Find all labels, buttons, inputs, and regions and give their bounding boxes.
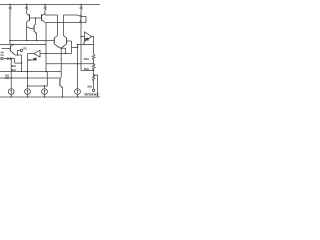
node Q7 emitter rail xyxy=(62,96,63,97)
node rail-R4 xyxy=(80,4,81,5)
wire R6 bottom to Q6 collector xyxy=(81,70,94,72)
op-amp A2 buffer x1 xyxy=(85,32,92,42)
svg-text:REFERENCE: REFERENCE xyxy=(84,93,99,97)
wire Q4 base bus xyxy=(10,40,54,42)
svg-text:5kΩ: 5kΩ xyxy=(11,69,15,72)
node sense y47.5 xyxy=(77,47,78,48)
node rail-R3 xyxy=(44,4,45,5)
wire bias bus y78 xyxy=(0,77,60,79)
terminal RG pin xyxy=(20,49,22,51)
wire RG leg down xyxy=(21,55,23,72)
current source I1 xyxy=(8,89,14,97)
wire mirror base xyxy=(30,17,42,19)
wire mirror base to Q3 xyxy=(35,18,37,24)
node mirror base junction xyxy=(35,17,36,18)
svg-text:5kΩ: 5kΩ xyxy=(84,57,90,61)
wire Q6 collector down xyxy=(80,20,82,70)
transistor Q6 (top right) xyxy=(77,14,86,23)
resistor R6 xyxy=(92,64,95,71)
resistor R4 xyxy=(80,5,82,15)
wire tail down to Q7 xyxy=(60,48,61,79)
wire A2 input xyxy=(81,36,85,38)
transistor Q3 (below Q1) xyxy=(27,24,37,40)
node A2 input xyxy=(80,36,81,37)
terminal reference pin xyxy=(92,89,94,91)
node R1-base bus xyxy=(9,40,10,41)
wire Q2 collector to A1 input rail xyxy=(45,23,47,72)
wire CS1 leg xyxy=(10,59,12,89)
wire A2 output xyxy=(92,37,94,54)
node I3 rail xyxy=(44,96,45,97)
node A2 feedback tap xyxy=(83,44,84,45)
node sense y63.8 xyxy=(77,63,78,64)
node I2 rail xyxy=(27,96,28,97)
svg-text:PUT: PUT xyxy=(0,55,5,57)
wire CS3 top y86 xyxy=(28,72,48,87)
wire A1 output xyxy=(28,53,35,55)
wire tail branch right xyxy=(61,48,66,53)
svg-text:5kΩ: 5kΩ xyxy=(11,65,15,68)
node output branch xyxy=(93,74,94,75)
resistor R3 xyxy=(44,5,46,16)
node y71.5 A1 in leg xyxy=(45,71,46,72)
node y86 CS3 xyxy=(44,85,45,86)
transistor Q2 mirror right xyxy=(42,14,47,23)
wire y47.5 to CS4 line xyxy=(72,47,78,49)
node y63.1 xyxy=(21,62,22,63)
wire A2 feedback xyxy=(78,44,94,46)
transistor Q1 mirror left xyxy=(27,14,30,23)
svg-text:x1: x1 xyxy=(85,37,89,41)
current source I2 xyxy=(25,89,31,97)
wire top supply rail xyxy=(0,4,100,6)
wire A1 output down xyxy=(27,54,29,89)
wire diff collector left xyxy=(54,15,57,38)
transistor Q1 input left xyxy=(2,45,16,56)
resistor R5 xyxy=(92,54,95,64)
wire Q5 base loop xyxy=(71,41,73,54)
diode input xyxy=(7,57,10,60)
transistor Q5 diff pair right xyxy=(61,38,72,49)
resistor R1 xyxy=(9,5,11,45)
node feedback to sense line xyxy=(77,44,78,45)
wire RG pin left xyxy=(18,50,21,55)
wire diff collector right xyxy=(64,15,67,38)
node Q3 emitter to bus xyxy=(36,40,37,41)
node y86 A1 leg xyxy=(27,85,28,86)
svg-text:RG: RG xyxy=(23,47,27,50)
node y71.5 RG leg xyxy=(21,71,22,72)
node A1 input junction xyxy=(45,53,46,54)
wire feedback bus y44.5 xyxy=(0,44,46,46)
node input junction xyxy=(10,58,11,59)
node Q3 collector to bus xyxy=(26,40,27,41)
node I1 rail xyxy=(10,96,11,97)
wire Q1 collector run to bus xyxy=(26,22,28,40)
current source I3 xyxy=(42,86,48,97)
wire A1 input xyxy=(40,53,72,55)
current source I4 xyxy=(75,89,81,97)
wire emitter feed right y15 xyxy=(64,14,78,16)
node I4 rail xyxy=(77,96,78,97)
node rail-R2 xyxy=(26,4,27,5)
wire input to corner xyxy=(10,59,15,64)
wire cascode bus y22.5 xyxy=(46,22,86,24)
wire emitter feed left y15 xyxy=(45,14,58,16)
svg-text:5kΩ: 5kΩ xyxy=(28,58,33,62)
node R6 bottom xyxy=(93,70,94,71)
wire bottom supply rail xyxy=(0,96,100,98)
resistor R2 xyxy=(25,5,27,14)
op-amp A1 buffer x1 xyxy=(33,50,40,61)
resistor R7 xyxy=(92,75,95,89)
node Q1c on y44.5 xyxy=(12,44,13,45)
svg-text:1kΩ: 1kΩ xyxy=(5,75,10,77)
wire output branch right/down xyxy=(94,75,98,97)
svg-text:-IN: -IN xyxy=(0,51,3,55)
node bias at CS1 line xyxy=(10,77,11,78)
svg-text:x1: x1 xyxy=(33,57,37,61)
node y63.8 at resistor chain xyxy=(93,63,94,64)
transistor Q4 diff pair left xyxy=(54,38,61,49)
terminal input pin xyxy=(1,57,3,59)
wire chain to output branch xyxy=(93,71,95,76)
node diff tail xyxy=(60,47,61,48)
wire y63.1 xyxy=(15,62,22,64)
wire network bus y71.5 xyxy=(0,71,61,73)
svg-text:5kΩ: 5kΩ xyxy=(87,85,92,88)
node y71.5 A1 out leg xyxy=(27,71,28,72)
wire sense line down xyxy=(77,45,79,89)
wire mid horizontal y63.8 xyxy=(46,63,94,65)
svg-text:1kΩ: 1kΩ xyxy=(5,78,10,80)
transistor Q7 tail source xyxy=(60,79,63,97)
node RG wire join xyxy=(17,54,18,55)
node tail branch on A1 wire xyxy=(65,53,66,54)
wire emitter node y55 xyxy=(15,54,22,56)
wire input xyxy=(3,58,7,60)
node rail-R1 xyxy=(9,4,10,5)
